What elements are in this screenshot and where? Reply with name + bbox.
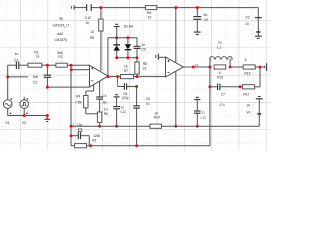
capacitor C5: [134, 38, 146, 58]
ground: [114, 24, 120, 38]
wire diode bottom rail: [117, 57, 137, 59]
svg-text:C6: C6: [146, 97, 150, 101]
diode D4: [125, 38, 132, 58]
svg-text:C9: C9: [204, 18, 208, 22]
wire U1 comp pin to R4: [86, 85, 94, 96]
node junction: [135, 85, 138, 88]
svg-text:R8: R8: [143, 62, 147, 66]
ground: [256, 97, 263, 99]
label a1: [195, 63, 199, 67]
capacitor C9: [193, 8, 208, 32]
svg-text:R5: R5: [90, 36, 94, 40]
resistor R10: [150, 112, 162, 129]
svg-text:C10: C10: [200, 116, 206, 120]
node junction: [208, 85, 211, 88]
svg-text:1n: 1n: [85, 21, 89, 25]
node junction: [23, 114, 26, 117]
svg-text:10: 10: [104, 107, 108, 111]
svg-text:1n: 1n: [15, 52, 19, 56]
terminal port P1 (supply input): [71, 5, 74, 9]
svg-text:47n: 47n: [219, 103, 225, 107]
source V1: [3, 98, 12, 125]
svg-text:2u: 2u: [218, 41, 222, 45]
capacitor C11: [113, 97, 126, 126]
node junction: [46, 114, 49, 117]
wire U2 vplus and vminus column: [175, 8, 177, 127]
svg-text:22: 22: [143, 67, 147, 71]
wire to U1 inverting input: [71, 69, 89, 71]
ground: [114, 95, 120, 97]
capacitor C8: [118, 83, 137, 100]
svg-text:1n: 1n: [201, 110, 205, 114]
ground: [194, 97, 200, 99]
svg-text:8: 8: [245, 58, 247, 62]
node junction: [70, 68, 73, 71]
svg-text:1k: 1k: [124, 65, 128, 69]
svg-text:C1: C1: [14, 59, 18, 63]
svg-text:7.5k: 7.5k: [75, 101, 82, 105]
svg-text:LM1875: LM1875: [55, 38, 67, 42]
svg-text:10: 10: [245, 22, 249, 26]
wire zobel column left: [209, 67, 211, 146]
wire to U1 noninverting input: [67, 64, 89, 66]
svg-text:120p: 120p: [121, 96, 128, 100]
node junction: [126, 36, 129, 39]
wire bottom rail: [87, 145, 210, 147]
svg-text:10: 10: [91, 30, 95, 34]
capacitor C3: [71, 123, 89, 146]
svg-text:D2 D4: D2 D4: [124, 24, 134, 28]
wire: [19, 64, 28, 66]
node junction: [99, 6, 102, 9]
wire: [7, 65, 9, 100]
svg-text:a1: a1: [195, 63, 199, 67]
wire drop to U1 output: [107, 38, 109, 77]
node junction: [136, 56, 139, 59]
wire source ground bus: [8, 115, 48, 117]
svg-text:da2: da2: [57, 32, 63, 36]
capacitor C7: [210, 84, 243, 108]
node junction: [70, 64, 73, 67]
resistor R1: [28, 50, 42, 67]
svg-text:5k6: 5k6: [57, 51, 63, 55]
op-amp U1 (LM301A): [90, 65, 109, 87]
svg-text:C12: C12: [85, 16, 91, 20]
node junction: [46, 64, 49, 67]
svg-text:1: 1: [73, 123, 75, 127]
resistor R17: [243, 85, 255, 97]
node junction: [115, 36, 118, 39]
node junction: [126, 56, 129, 59]
node junction: [229, 66, 232, 69]
node junction: [259, 66, 262, 69]
node junction: [239, 85, 242, 88]
wire: [230, 66, 243, 68]
node junction: [192, 66, 195, 69]
resistor R6: [97, 107, 108, 126]
svg-text:V1: V1: [5, 121, 9, 125]
node junction: [115, 56, 118, 59]
svg-text:5n: 5n: [204, 13, 208, 17]
svg-text:1n: 1n: [141, 43, 145, 47]
source V2: [20, 97, 29, 125]
wire open stub: [8, 76, 28, 78]
label da: [59, 17, 63, 21]
svg-text:120k: 120k: [93, 134, 100, 138]
wire: [255, 66, 264, 68]
node junction: [46, 86, 49, 89]
svg-text:V4: V4: [246, 110, 250, 114]
wire zobel drop right: [259, 67, 261, 87]
svg-text:LM301A_LT: LM301A_LT: [53, 23, 70, 27]
wire: [157, 8, 258, 18]
svg-text:C2: C2: [33, 80, 37, 84]
resistor R15: [214, 65, 226, 80]
node junction: [135, 144, 138, 147]
capacitor C10: [194, 100, 206, 127]
svg-text:10: 10: [154, 112, 158, 116]
capacitor C1: [14, 52, 19, 69]
svg-text:1k: 1k: [36, 55, 40, 59]
resistor R16: [243, 58, 255, 75]
wire mid rail right: [162, 125, 260, 127]
svg-text:10: 10: [246, 104, 250, 108]
capacitor C6: [133, 87, 150, 146]
node junction: [6, 75, 9, 78]
ground: [194, 32, 201, 34]
wire highlighted: [117, 77, 119, 87]
capacitor C2: [33, 65, 51, 87]
svg-text:6: 6: [219, 71, 221, 75]
svg-text:C4: C4: [102, 94, 106, 98]
wire: [42, 64, 56, 66]
battery V4: [246, 99, 261, 126]
wire: [8, 64, 16, 66]
ground: [255, 36, 262, 38]
wire feedback column: [70, 65, 72, 146]
svg-text:10: 10: [148, 15, 152, 19]
svg-text:R16: R16: [244, 72, 250, 76]
node junction: [196, 125, 199, 128]
svg-text:R9: R9: [147, 11, 151, 15]
inductor L1: [210, 41, 232, 67]
ground: [44, 116, 50, 122]
node junction: [174, 6, 177, 9]
node junction: [208, 66, 211, 69]
terminal port output: [265, 63, 267, 71]
svg-text:12p: 12p: [77, 123, 83, 127]
svg-text:R10: R10: [154, 116, 160, 120]
wire U1 output: [108, 76, 166, 78]
wire: [91, 7, 145, 9]
battery V3: [245, 15, 262, 35]
resistor R8: [135, 58, 147, 77]
node junction: [98, 125, 101, 128]
resistor R7: [121, 65, 134, 79]
wire R4 bottom jog: [86, 108, 98, 114]
svg-text:da: da: [59, 17, 63, 21]
node junction: [70, 134, 73, 137]
svg-text:C5: C5: [141, 48, 145, 52]
wire C2 to U1 vminus corner: [47, 86, 89, 88]
wire U2 output: [184, 66, 210, 68]
svg-text:1n: 1n: [120, 106, 124, 110]
resistor R2: [56, 51, 67, 67]
svg-text:R17: R17: [243, 92, 249, 96]
svg-text:3p: 3p: [103, 100, 107, 104]
resistor R5: [90, 8, 103, 71]
label D2 D4: [124, 24, 134, 28]
node junction: [174, 125, 177, 128]
svg-text:R15: R15: [217, 75, 223, 79]
svg-text:R2: R2: [58, 55, 62, 59]
svg-text:V3: V3: [245, 15, 249, 19]
capacitor C4: [96, 81, 107, 112]
op-amp U2 (LM1875): [166, 57, 184, 77]
wire mid rail: [71, 125, 150, 127]
node junction: [136, 75, 139, 78]
capacitor C12: [85, 4, 91, 25]
wire to U2 plus input: [159, 57, 167, 60]
svg-text:V2: V2: [22, 121, 26, 125]
wire diode top rail: [108, 37, 137, 39]
node junction: [196, 6, 199, 9]
svg-text:R1: R1: [34, 50, 38, 54]
label LM301A_LT: [53, 23, 70, 27]
wire: [255, 86, 260, 88]
node junction: [107, 75, 110, 78]
node junction: [70, 125, 73, 128]
node junction: [89, 144, 92, 147]
wire: [74, 7, 86, 9]
label da2: [57, 32, 63, 36]
resistor R9: [145, 6, 156, 20]
svg-text:C7: C7: [221, 93, 225, 97]
resistor R3: [71, 134, 101, 148]
resistor R4: [75, 94, 88, 108]
terminal port P2: [156, 54, 159, 60]
svg-text:R7: R7: [124, 69, 128, 73]
svg-text:R3: R3: [92, 138, 96, 142]
diode D2: [113, 38, 120, 58]
node junction: [115, 125, 118, 128]
svg-text:1n: 1n: [146, 102, 150, 106]
svg-text:0n0: 0n0: [33, 75, 39, 79]
svg-text:C11: C11: [120, 110, 126, 114]
svg-text:R4: R4: [76, 94, 80, 98]
svg-text:L1: L1: [217, 45, 221, 49]
node junction: [116, 75, 119, 78]
svg-text:R6: R6: [104, 112, 108, 116]
label LM1875: [55, 38, 67, 42]
